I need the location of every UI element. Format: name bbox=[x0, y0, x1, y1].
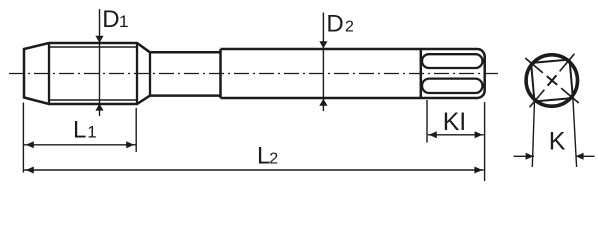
svg-text:I: I bbox=[459, 108, 466, 136]
shank top line bbox=[221, 48, 421, 51]
dimension L2 arrow right bbox=[474, 167, 482, 174]
shank end face bbox=[420, 48, 423, 99]
extension line L1 right bbox=[135, 108, 137, 152]
thread chamfer boundary left bbox=[48, 43, 50, 104]
svg-text:D: D bbox=[102, 6, 119, 33]
extension line Kl left bbox=[426, 100, 428, 143]
dimension D2 arrow bottom bbox=[319, 99, 327, 106]
square diagonal bottom-right bbox=[561, 87, 579, 105]
K extension line left bbox=[532, 101, 534, 167]
dimension K line right bbox=[576, 155, 595, 157]
svg-text:L: L bbox=[73, 117, 86, 144]
extension line left L1 L2 bbox=[22, 103, 24, 173]
neck bottom line bbox=[150, 94, 221, 97]
dimension D1 arrow bottom bbox=[95, 104, 103, 111]
thread root line bottom bbox=[49, 99, 137, 101]
end view circle bbox=[526, 55, 577, 106]
square drive outline bbox=[421, 49, 485, 98]
square diagonal top-right bbox=[558, 54, 576, 72]
svg-text:K: K bbox=[443, 108, 460, 136]
svg-text:D: D bbox=[326, 11, 343, 38]
thread section outline bbox=[24, 43, 150, 104]
center mark cross bbox=[547, 75, 557, 85]
centerline main axis bbox=[9, 73, 498, 75]
dimension K arrow left bbox=[526, 153, 534, 160]
dimension Kl arrow left bbox=[429, 131, 437, 138]
thread root line top bbox=[49, 46, 137, 48]
neck top line bbox=[150, 51, 221, 54]
svg-text:1: 1 bbox=[87, 123, 96, 142]
thread end boundary right bbox=[136, 43, 138, 104]
svg-text:2: 2 bbox=[269, 151, 278, 168]
dimension L2 arrow left bbox=[26, 167, 34, 174]
square flat top capsule bbox=[422, 54, 483, 68]
extension line Kl L2 right bbox=[484, 102, 486, 181]
end view square bbox=[531, 60, 573, 102]
svg-text:2: 2 bbox=[345, 19, 354, 36]
dimension K arrow right bbox=[576, 153, 584, 160]
dimension L2 line bbox=[24, 169, 484, 171]
dimension D1 arrow top bbox=[95, 36, 103, 43]
shank bottom line bbox=[221, 97, 421, 100]
dimension L1 arrow right bbox=[126, 141, 134, 148]
K extension line right bbox=[573, 98, 577, 167]
dimension K line left bbox=[514, 155, 535, 157]
thread runout boundary bbox=[149, 52, 151, 95]
dimension L1 arrow left bbox=[26, 141, 34, 148]
dimension D1 line bbox=[99, 9, 101, 116]
dimension Kl line bbox=[428, 134, 484, 136]
square diagonal top-left bbox=[525, 57, 543, 75]
square diagonal bottom-left bbox=[528, 90, 546, 108]
svg-text:1: 1 bbox=[119, 12, 128, 31]
shank step face bbox=[219, 49, 222, 98]
dimension D2 arrow top bbox=[319, 41, 327, 48]
dimension L1 line bbox=[24, 144, 136, 146]
dimension D2 line bbox=[322, 13, 324, 112]
square flat bottom capsule bbox=[422, 79, 483, 93]
dimension Kl arrow right bbox=[475, 131, 483, 138]
svg-text:K: K bbox=[549, 128, 566, 156]
